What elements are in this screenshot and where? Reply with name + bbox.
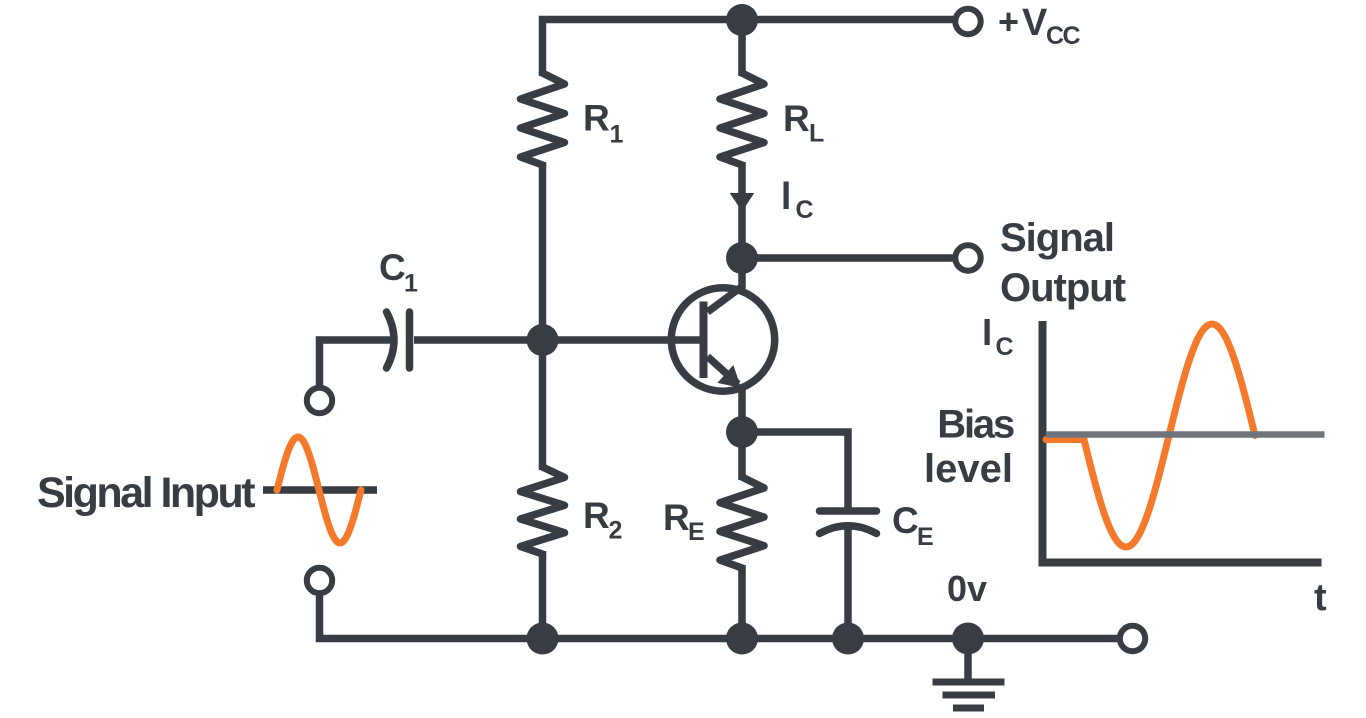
svg-text:CC: CC (1046, 22, 1081, 50)
svg-text:Output: Output (1000, 266, 1126, 310)
svg-text:0v: 0v (947, 568, 987, 609)
svg-text:R: R (663, 497, 690, 538)
svg-text:+: + (998, 1, 1019, 42)
svg-text:C: C (996, 333, 1014, 361)
svg-text:C: C (796, 196, 814, 224)
svg-text:1: 1 (404, 270, 418, 298)
svg-text:E: E (917, 523, 934, 551)
svg-text:Signal: Signal (1000, 216, 1114, 260)
svg-text:R: R (783, 98, 810, 139)
svg-text:t: t (1314, 577, 1327, 619)
svg-text:E: E (688, 518, 705, 546)
svg-text:Signal Input: Signal Input (37, 469, 255, 517)
svg-text:1: 1 (610, 121, 624, 149)
svg-text:2: 2 (609, 517, 623, 545)
svg-text:level: level (924, 447, 1013, 491)
svg-text:L: L (809, 120, 824, 148)
svg-text:R: R (583, 495, 610, 536)
svg-text:Bias: Bias (937, 403, 1014, 447)
svg-text:R: R (583, 98, 610, 139)
svg-text:V: V (1022, 2, 1048, 44)
svg-text:C: C (892, 500, 919, 541)
svg-text:C: C (379, 247, 406, 288)
